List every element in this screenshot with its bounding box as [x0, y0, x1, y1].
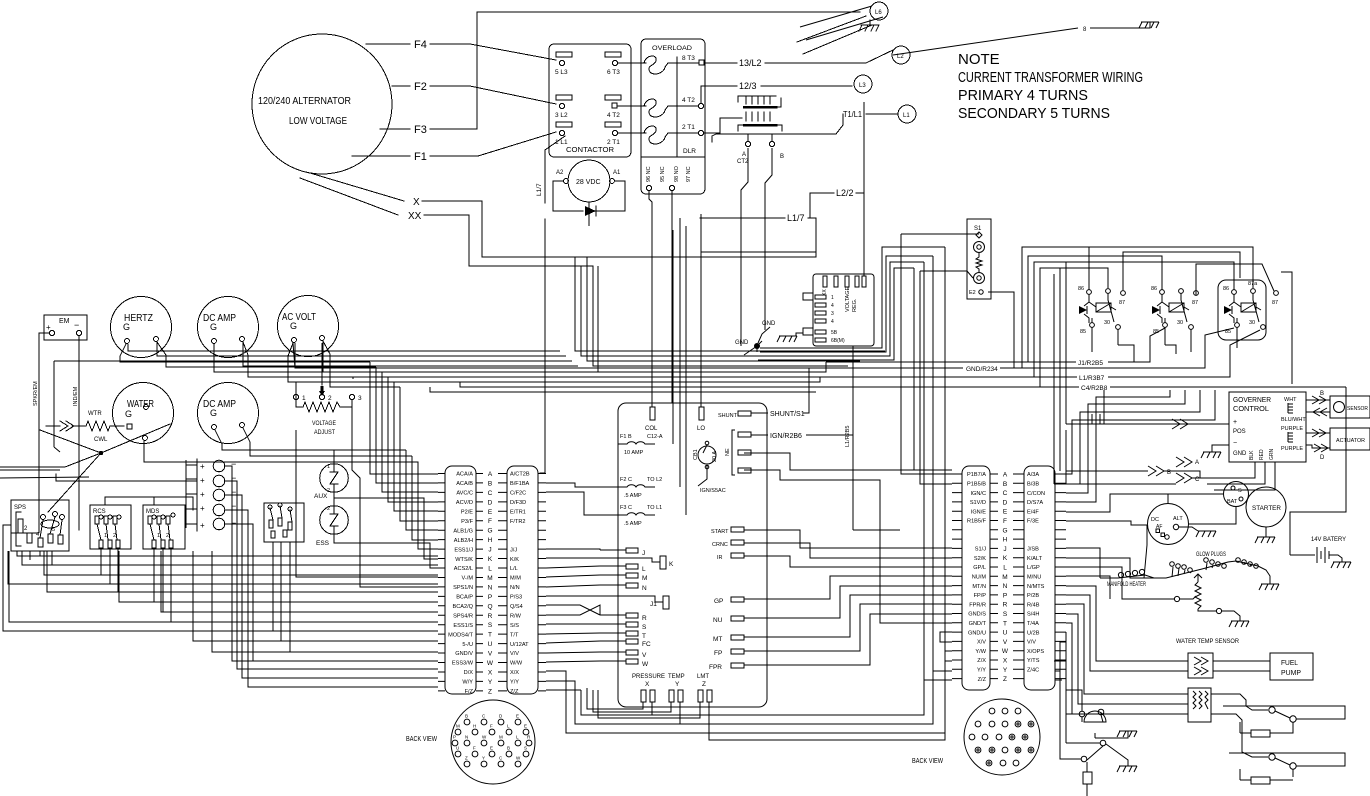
TB2 row D — [952, 501, 1066, 503]
wire TB2 M right — [1066, 576, 1110, 599]
wire C4/R2B8 — [826, 386, 1079, 388]
svg-text:NE: NE — [725, 448, 731, 456]
wire bottom U left 1 — [566, 690, 945, 733]
wires above relays — [1086, 247, 1240, 290]
svg-text:ESS1/J: ESS1/J — [454, 547, 473, 553]
wire CT2 A down — [741, 148, 748, 346]
wire pin Y2 right — [680, 702, 933, 724]
svg-text:X: X — [488, 670, 493, 677]
TB2 row B — [952, 482, 1066, 484]
svg-text:G: G — [1002, 527, 1007, 534]
svg-text:F2: F2 — [414, 81, 427, 93]
wire TB1 to W — [546, 661, 600, 662]
svg-text:CT2: CT2 — [737, 159, 749, 165]
wire dcamp to TB1 D — [248, 355, 438, 502]
svg-text:S1V/D: S1V/D — [970, 500, 986, 506]
wire diode pack right — [225, 466, 253, 661]
TB1 row V — [438, 652, 546, 654]
svg-text:GP: GP — [714, 598, 723, 605]
svg-text:X/OPS: X/OPS — [1027, 649, 1044, 655]
wire relay drop 1 — [1118, 345, 1176, 362]
wire ABC risers — [1054, 268, 1066, 484]
TB1 row W — [438, 662, 546, 664]
wire switch staircase 8 — [9, 551, 438, 622]
wire TB1 to K — [546, 558, 660, 562]
wire hertz right to TB1 B — [166, 355, 438, 483]
svg-text:X: X — [1003, 658, 1008, 665]
svg-text:ESS: ESS — [316, 540, 330, 547]
relay K2 — [1151, 286, 1198, 335]
pin NU — [731, 616, 744, 621]
svg-text:95 NC: 95 NC — [660, 166, 666, 182]
svg-text:R/W: R/W — [510, 614, 522, 620]
ground top right — [1139, 22, 1159, 28]
wire sps bottom feeds — [30, 551, 52, 565]
pin NE — [738, 450, 751, 455]
wire TB2 R right — [1066, 604, 1110, 694]
svg-text:WTR: WTR — [88, 411, 102, 417]
wire gnd fan 2 — [760, 256, 933, 671]
svg-text:LO: LO — [697, 426, 705, 432]
svg-text:2 T1: 2 T1 — [607, 139, 620, 146]
svg-text:PURPLE: PURPLE — [1281, 426, 1303, 432]
svg-text:SPS: SPS — [14, 505, 26, 511]
svg-text:+: + — [200, 462, 205, 471]
svg-text:M: M — [487, 575, 492, 582]
svg-text:COL: COL — [645, 426, 658, 432]
wire pin Z2 right — [709, 702, 945, 740]
svg-text:N: N — [465, 735, 468, 740]
svg-text:DC AMP: DC AMP — [203, 313, 236, 324]
svg-text:T1/L1: T1/L1 — [843, 109, 862, 119]
svg-text:R1B5/F: R1B5/F — [967, 519, 987, 525]
TB2 row C — [952, 492, 1066, 494]
TB1 row J — [438, 548, 546, 550]
svg-text:85: 85 — [1080, 329, 1086, 335]
svg-text:F/3E: F/3E — [1027, 519, 1039, 525]
contactor K1M box — [549, 44, 631, 157]
svg-text:G: G — [123, 322, 130, 332]
svg-text:U: U — [1003, 630, 1008, 637]
lower switch — [1081, 756, 1087, 762]
svg-text:FPR/R: FPR/R — [969, 602, 986, 608]
wire relay K3 feed — [1034, 262, 1231, 377]
relay K3 — [1218, 280, 1278, 340]
wire actuator 1 — [1306, 432, 1330, 434]
svg-text:FP/P: FP/P — [974, 593, 987, 599]
svg-text:S1/J: S1/J — [975, 547, 986, 553]
wire CWL diagonals — [0, 424, 170, 512]
TB2 row X — [952, 659, 1066, 661]
svg-text:12/3: 12/3 — [739, 81, 757, 91]
svg-text:86: 86 — [1223, 286, 1229, 292]
wire ne riser — [744, 453, 952, 623]
svg-text:96 NC: 96 NC — [646, 166, 652, 182]
pin R — [626, 613, 638, 618]
svg-text:P2/E: P2/E — [461, 510, 473, 516]
TB2 row J — [952, 547, 1066, 549]
svg-text:P: P — [453, 735, 456, 740]
svg-text:NU/M: NU/M — [972, 575, 987, 581]
svg-text:Y: Y — [675, 681, 680, 688]
svg-text:Z/Z: Z/Z — [510, 689, 519, 695]
svg-text:BCA/P: BCA/P — [456, 595, 473, 601]
svg-text:TEMP: TEMP — [668, 674, 685, 680]
wire START to TB2 — [744, 530, 952, 548]
wire TB1 to M — [546, 575, 600, 577]
contactor pole 5L3-6T3 — [555, 52, 621, 76]
wire governor risers — [1092, 414, 1100, 424]
TB1 row G — [438, 529, 546, 531]
ground symbol mid — [777, 333, 803, 342]
svg-text:IR: IR — [717, 555, 723, 561]
connector arrows A B C — [1176, 457, 1192, 467]
svg-text:S: S — [488, 622, 493, 629]
wire L2/2 to VR pin — [863, 193, 865, 276]
wire alt top — [1168, 494, 1223, 498]
wire shunt riser right — [808, 368, 810, 398]
wire to L6 — [797, 16, 872, 54]
svg-text:J/SB: J/SB — [1027, 547, 1039, 553]
TB1 row D — [438, 501, 546, 503]
svg-text:T: T — [1003, 620, 1007, 627]
oil pressure switch 1 — [1211, 694, 1268, 710]
ground governor — [1201, 452, 1221, 458]
terminal strip TB1 left — [445, 466, 476, 694]
wire actuator 2 — [1306, 445, 1330, 448]
svg-text:D/S7A: D/S7A — [1027, 500, 1043, 506]
svg-text:R: R — [1003, 602, 1008, 609]
wire TB1 Z down — [546, 689, 581, 691]
wire S1 left verticals — [901, 234, 967, 484]
wire X — [310, 173, 816, 257]
TB2 row E — [952, 510, 1066, 512]
svg-text:K/K: K/K — [510, 557, 519, 563]
wire XX — [300, 178, 593, 266]
svg-text:J: J — [1003, 546, 1006, 553]
pin K — [660, 556, 666, 569]
svg-text:87: 87 — [1272, 300, 1278, 306]
svg-text:6 T3: 6 T3 — [607, 69, 620, 76]
wire relay K2 feed — [1028, 256, 1159, 362]
svg-text:E/4F: E/4F — [1027, 509, 1039, 515]
svg-text:5 L3: 5 L3 — [555, 69, 568, 76]
TB2 row Y — [952, 668, 1066, 670]
svg-text:V/V: V/V — [510, 651, 519, 657]
TB1 row L — [438, 567, 546, 569]
svg-text:30: 30 — [1249, 320, 1255, 326]
governor bottom pin wires — [1200, 462, 1275, 490]
overload relay block — [641, 39, 705, 194]
wire switch staircase 10 — [193, 551, 438, 641]
wire TB2 D right — [1066, 390, 1170, 502]
wire J1/R2B5 — [826, 361, 1076, 363]
wire SHUNT/S1 — [751, 412, 768, 414]
wire bus mid 4 — [243, 342, 578, 366]
TB1 row Q — [438, 605, 546, 607]
svg-text:A/CT2B: A/CT2B — [510, 472, 530, 478]
svg-text:FPR: FPR — [709, 664, 722, 671]
wire TB2 L right — [1066, 567, 1130, 599]
bracket NE group — [732, 430, 735, 475]
svg-text:L2/2: L2/2 — [836, 188, 854, 198]
wire TB2 C right — [1066, 390, 1185, 493]
svg-text:BACK VIEW: BACK VIEW — [912, 758, 943, 765]
wire TB2 S right — [1066, 614, 1110, 704]
svg-text:X/V: X/V — [977, 640, 986, 646]
svg-text:1 L1: 1 L1 — [555, 139, 568, 146]
governor control module — [1229, 392, 1306, 462]
TB1 row T — [438, 633, 546, 635]
wire switch staircase 5 — [47, 551, 438, 592]
svg-text:D/X: D/X — [464, 670, 474, 676]
wire governor POS riser — [1066, 262, 1104, 424]
svg-text:J/J: J/J — [510, 547, 517, 553]
terminal strip TB2 right — [1024, 466, 1055, 690]
gauge WATER — [113, 383, 174, 444]
TB2 row S — [952, 613, 1066, 615]
wire switch staircase 12 — [232, 551, 438, 661]
potentiometer R-adj VOLTAGE ADJUST — [293, 379, 362, 436]
wire bus mid 7 — [322, 377, 826, 379]
svg-text:RCS: RCS — [93, 509, 106, 515]
svg-text:B: B — [507, 746, 510, 751]
svg-text:C/CON: C/CON — [1027, 491, 1045, 497]
svg-text:X: X — [413, 197, 420, 208]
svg-text:Q/S4: Q/S4 — [510, 604, 523, 610]
svg-text:2: 2 — [327, 506, 330, 512]
aux switch circle — [1100, 740, 1106, 746]
svg-text:W/Y: W/Y — [462, 680, 473, 686]
TB1 row M — [438, 577, 546, 579]
svg-text:R: R — [488, 613, 493, 620]
wire TB2 K right — [1066, 558, 1144, 578]
wire gnd fan 4 — [758, 268, 914, 470]
svg-text:Z: Z — [465, 756, 468, 761]
svg-text:1: 1 — [831, 295, 834, 301]
power supply PS1 28VDC — [568, 160, 610, 202]
hour meter EM — [44, 315, 87, 340]
wire TB1 to R — [546, 605, 600, 615]
svg-text:B: B — [465, 714, 468, 719]
svg-text:120/240 ALTERNATOR: 120/240 ALTERNATOR — [258, 95, 351, 107]
wire switch staircase 1 — [17, 551, 438, 556]
junction node CWL — [99, 451, 103, 455]
svg-text:MODS4/T: MODS4/T — [448, 632, 473, 638]
svg-text:W: W — [487, 660, 494, 667]
wire bottom U left 3 — [581, 690, 924, 715]
wire TB1 to S — [546, 623, 600, 625]
svg-text:C/F2C: C/F2C — [510, 491, 526, 497]
svg-text:T: T — [642, 633, 646, 640]
wire MT to TB2 — [744, 595, 952, 637]
svg-text:M/M: M/M — [510, 576, 521, 582]
svg-text:1: 1 — [327, 464, 330, 470]
svg-text:D: D — [1003, 499, 1008, 506]
pin M — [626, 573, 638, 578]
wire diode pack left — [186, 460, 197, 528]
TB2 row L — [952, 566, 1066, 568]
svg-text:F/TR2: F/TR2 — [510, 519, 526, 525]
svg-text:SPS4/R: SPS4/R — [453, 614, 473, 620]
wire contactor to overload row2 — [617, 105, 646, 107]
svg-text:3: 3 — [358, 395, 362, 402]
svg-text:GND: GND — [1233, 451, 1247, 457]
svg-text:PRIMARY 4 TURNS: PRIMARY 4 TURNS — [958, 87, 1088, 104]
wire IR stub — [744, 556, 952, 567]
svg-text:MT: MT — [713, 636, 722, 643]
svg-text:A: A — [1195, 460, 1199, 466]
svg-text:W: W — [1002, 648, 1009, 655]
terminal strip TB1 right — [507, 466, 538, 694]
starter motor — [1246, 487, 1286, 527]
wire TB2 J right — [1066, 548, 1100, 578]
fuel pump — [1270, 653, 1313, 680]
svg-text:G: G — [487, 528, 492, 535]
wire CRNC to TB2 — [744, 543, 952, 558]
wire bus mid 10 — [430, 387, 816, 392]
pin S — [626, 622, 638, 627]
wire 13/L2 — [704, 62, 737, 64]
TB1 row P — [438, 595, 546, 597]
wire governor GND to ground — [1212, 445, 1229, 452]
svg-text:A: A — [1003, 472, 1008, 479]
svg-text:G: G — [210, 322, 217, 332]
svg-text:L: L — [642, 566, 646, 573]
wire acvolt to TB1 E — [288, 356, 438, 511]
breaker ESS — [320, 506, 349, 535]
svg-text:X: X — [645, 681, 650, 688]
svg-text:28 VDC: 28 VDC — [576, 179, 601, 186]
wire sensor return — [1306, 411, 1330, 413]
svg-text:Y/Y: Y/Y — [510, 680, 519, 686]
wire switch staircase 7 — [161, 551, 438, 612]
wire TB1 cross 1 — [546, 605, 600, 615]
wire dcamp to TB1 C — [214, 357, 438, 492]
svg-text:Y: Y — [488, 679, 493, 686]
wire GND/R234 — [744, 367, 963, 369]
wire bus mid 5 gnd — [295, 343, 744, 368]
svg-text:K: K — [669, 561, 674, 568]
svg-text:+: + — [1233, 419, 1237, 426]
wire manifold feed — [1099, 548, 1101, 578]
ground lower — [1106, 744, 1137, 772]
svg-text:86: 86 — [1078, 286, 1084, 292]
TB2 row N — [952, 585, 1066, 587]
TB2 row K — [952, 557, 1066, 559]
wire TB2 B right — [1066, 390, 1200, 484]
svg-text:Z: Z — [702, 681, 706, 688]
wire riser 597 — [598, 266, 826, 372]
wire TB1 to fuse F3 — [546, 492, 618, 515]
pin L — [626, 564, 638, 569]
svg-text:86: 86 — [1151, 286, 1157, 292]
breaker CB1 20A — [698, 446, 716, 464]
wire right edge vertical — [1290, 387, 1346, 555]
wire top right to ground8 — [893, 28, 1078, 55]
svg-text:P3/F: P3/F — [461, 519, 473, 525]
wire A2 loop — [553, 181, 583, 211]
svg-text:Z: Z — [1003, 676, 1007, 683]
svg-text:D: D — [488, 499, 493, 506]
svg-text:DLR: DLR — [683, 148, 696, 155]
wire A1 loop — [596, 181, 625, 211]
wire TB1 to T — [546, 633, 600, 634]
svg-text:S: S — [1238, 488, 1242, 494]
wire dcamp2 to TB1 G — [222, 444, 438, 530]
alternator G1 120/240 — [252, 34, 392, 174]
wire TB1 to J — [546, 549, 600, 550]
svg-text:4: 4 — [831, 303, 834, 309]
horn — [1079, 711, 1085, 717]
svg-text:PURPLE: PURPLE — [1281, 446, 1303, 452]
wire NU to TB2 — [744, 586, 952, 618]
TB2 row V — [952, 640, 1066, 642]
svg-text:L/GP: L/GP — [1027, 565, 1040, 571]
TB2 row W — [952, 650, 1066, 652]
pins temp — [669, 690, 674, 702]
TB2 row A — [952, 473, 1066, 475]
svg-text:N: N — [1003, 583, 1008, 590]
svg-text:SHUNT/S1: SHUNT/S1 — [770, 411, 805, 418]
ground glow plugs — [1259, 584, 1279, 590]
svg-text:E: E — [524, 724, 527, 729]
wire left edge 1 — [3, 525, 11, 631]
svg-text:U/12AT: U/12AT — [510, 642, 529, 648]
wire switch staircase 3 — [44, 551, 438, 575]
wire em to hertz rail — [54, 361, 242, 452]
svg-text:L1/R3B7: L1/R3B7 — [1079, 375, 1105, 382]
charge alternator — [1148, 504, 1189, 545]
wire water to TB1 J — [120, 356, 438, 549]
wire left edge 2 — [11, 528, 39, 533]
TB2 row G — [952, 529, 1066, 531]
wire L1/R2B5 vertical — [853, 346, 900, 530]
wire TB1 X down — [546, 671, 566, 690]
svg-text:N: N — [642, 585, 647, 592]
svg-text:GND/V: GND/V — [455, 651, 473, 657]
wire F2 — [392, 86, 556, 104]
svg-text:POS: POS — [1233, 429, 1246, 435]
svg-text:P1B5/B: P1B5/B — [967, 482, 986, 488]
wire governor POS in — [1066, 423, 1229, 425]
svg-text:W/W: W/W — [510, 661, 523, 667]
gauge DC AMP 2 — [198, 383, 259, 444]
svg-text:ACS2/L: ACS2/L — [454, 566, 473, 572]
left pin J — [626, 548, 638, 553]
svg-text:SENSOR: SENSOR — [1347, 406, 1368, 412]
wire riser 592 — [593, 266, 848, 366]
svg-text:Y/W: Y/W — [975, 649, 986, 655]
wire switch staircase 4 — [8, 551, 438, 584]
svg-text:U/2B: U/2B — [1027, 630, 1040, 636]
svg-text:G: G — [290, 321, 297, 331]
wire alt ground — [1179, 527, 1198, 531]
svg-text:IGN/S5AC: IGN/S5AC — [700, 488, 726, 494]
wire bracket over RCS/MDS — [105, 497, 193, 510]
svg-text:ESS1/S: ESS1/S — [453, 623, 473, 629]
wire TB2 F right — [1066, 521, 1147, 525]
svg-text:2 T1: 2 T1 — [682, 124, 695, 131]
svg-text:H: H — [1003, 537, 1008, 544]
diode pack D2 — [197, 459, 236, 531]
svg-text:P: P — [488, 594, 492, 601]
svg-text:ACA/A: ACA/A — [456, 472, 473, 478]
wire contactor to overload row3 — [618, 132, 646, 134]
wire sensor out B — [1306, 399, 1330, 401]
wire gnd fan 1 — [760, 247, 945, 661]
pilot light L2 — [892, 46, 910, 64]
